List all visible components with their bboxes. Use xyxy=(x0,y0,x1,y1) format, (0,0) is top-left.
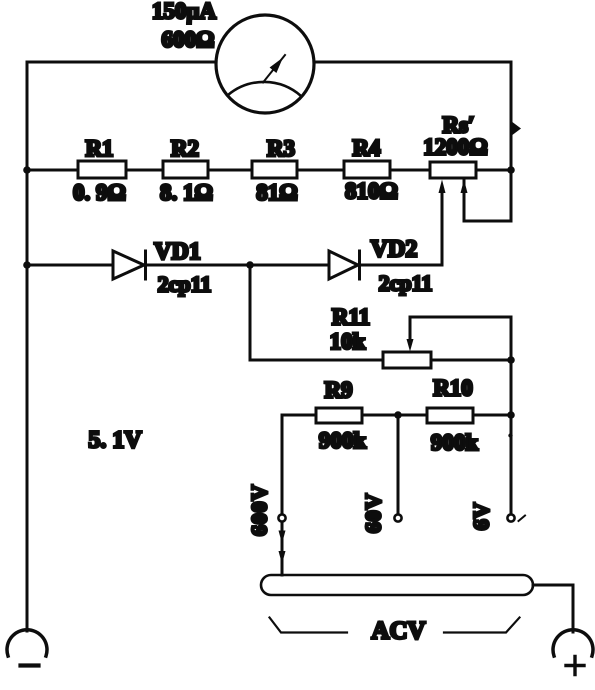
svg-text:900k: 900k xyxy=(431,430,479,455)
wire R9 left branch xyxy=(282,414,316,417)
wire diode-row seg1 xyxy=(27,264,113,267)
wire R11 right to rail xyxy=(431,359,511,362)
resistor R9 xyxy=(316,408,362,423)
node junction rail R11 xyxy=(507,356,515,364)
label minus xyxy=(21,663,39,667)
wiper arrow of R11 xyxy=(407,317,414,352)
svg-text:8. 1Ω: 8. 1Ω xyxy=(160,180,213,205)
terminal 60V xyxy=(394,514,401,521)
node small on right rail xyxy=(508,433,512,437)
wiper right tap of Rs' xyxy=(461,180,468,222)
wire 600V branch down xyxy=(281,415,284,514)
terminal 600V xyxy=(278,514,285,521)
meter M1 xyxy=(216,15,314,113)
svg-text:1200Ω: 1200Ω xyxy=(423,135,487,160)
node junction rail Rs' xyxy=(507,166,515,174)
brace ACV right xyxy=(444,618,520,633)
switch bar ACV xyxy=(261,575,533,595)
contact tick 6V xyxy=(519,516,526,522)
arrow on right rail xyxy=(511,121,521,136)
wire diode-row seg3 xyxy=(250,264,329,267)
probe minus dome xyxy=(7,630,47,656)
wire 60V branch down xyxy=(397,415,400,514)
wire R-row seg4 xyxy=(297,169,344,172)
svg-text:VD1: VD1 xyxy=(154,239,201,265)
brace ACV left xyxy=(270,618,348,633)
node junction R9-R10 xyxy=(394,411,402,419)
wiper left tap of Rs' xyxy=(439,180,446,266)
wire bar to plus probe xyxy=(533,585,573,632)
svg-text:ACV: ACV xyxy=(371,618,425,645)
wire R9-R10 xyxy=(362,414,427,417)
wire diode-row seg4 xyxy=(360,264,443,267)
wire junction down to R11 row xyxy=(250,265,383,360)
resistor R1 xyxy=(78,161,126,178)
switch wiper arrow 600V xyxy=(279,522,286,575)
svg-text:R4: R4 xyxy=(352,136,381,161)
svg-text:81Ω: 81Ω xyxy=(256,180,297,205)
wire R-row seg2 xyxy=(126,169,163,172)
resistor R3 xyxy=(252,161,297,178)
svg-text:2cp11: 2cp11 xyxy=(379,271,433,296)
svg-text:0. 9Ω: 0. 9Ω xyxy=(73,180,126,205)
wire R-row seg5 xyxy=(390,169,430,172)
svg-text:10k: 10k xyxy=(330,329,366,354)
label plus xyxy=(566,657,584,675)
diode VD2 xyxy=(329,251,360,279)
wire left rail xyxy=(26,62,29,631)
svg-text:R9: R9 xyxy=(324,378,352,403)
wire Rs' right to rail xyxy=(476,169,511,172)
wire R-row seg1 xyxy=(27,169,78,172)
svg-text:60V: 60V xyxy=(361,493,386,533)
wire right rail upper xyxy=(464,62,511,221)
potentiometer Rs' xyxy=(430,162,476,178)
resistor R10 xyxy=(427,408,473,423)
wire R-row seg3 xyxy=(208,169,252,172)
svg-text:5. 1V: 5. 1V xyxy=(88,428,142,454)
node junction left diode-row xyxy=(23,261,31,269)
svg-text:R2: R2 xyxy=(171,136,199,161)
diode VD1 xyxy=(113,251,146,279)
wire right rail lower xyxy=(510,317,513,514)
node junction VD1-VD2 xyxy=(246,261,254,269)
svg-text:900k: 900k xyxy=(319,428,367,453)
wire top-left horizontal xyxy=(27,61,216,64)
svg-text:150μA: 150μA xyxy=(152,0,217,24)
svg-text:VD2: VD2 xyxy=(371,237,418,263)
resistor R4 xyxy=(344,161,390,178)
svg-text:R3: R3 xyxy=(267,136,295,161)
wire top-right horizontal xyxy=(314,61,511,64)
svg-text:600V: 600V xyxy=(247,484,272,536)
node junction rail R10 xyxy=(507,411,515,419)
svg-text:6V: 6V xyxy=(469,502,494,531)
wire R10 right to rail xyxy=(473,414,511,417)
probe plus dome xyxy=(553,630,593,656)
svg-text:R11: R11 xyxy=(332,305,370,330)
terminal 6V xyxy=(507,514,514,521)
potentiometer R11 xyxy=(383,352,431,368)
wire R11 wiper to rail xyxy=(410,316,511,319)
svg-text:600Ω: 600Ω xyxy=(162,27,215,52)
wire diode-row seg2 xyxy=(146,264,251,267)
svg-text:2cp11: 2cp11 xyxy=(158,272,212,297)
node junction left R-row xyxy=(23,166,31,174)
svg-text:R10: R10 xyxy=(433,376,473,401)
resistor R2 xyxy=(163,161,208,178)
svg-text:810Ω: 810Ω xyxy=(345,179,398,204)
svg-text:R1: R1 xyxy=(85,136,113,161)
